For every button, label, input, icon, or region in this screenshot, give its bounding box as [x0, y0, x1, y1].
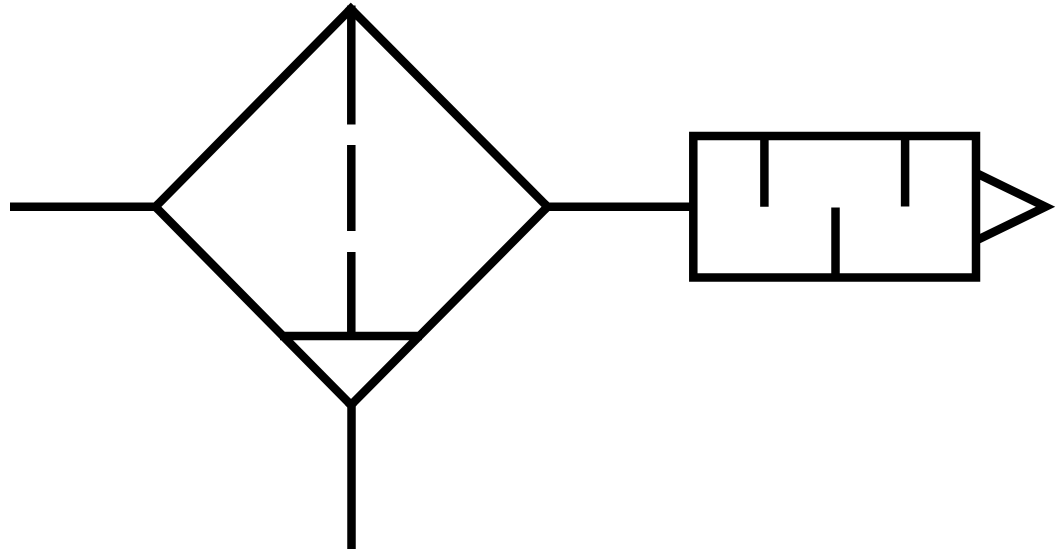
filter element: dashed center line segment 1: [347, 6, 356, 125]
water trap baffle line: [280, 332, 422, 341]
filter element: dashed center line segment 3: [347, 252, 356, 336]
wire: left inlet lead: [10, 203, 157, 212]
muffler/dryer U1: rectangle body: [693, 136, 976, 278]
filter/water-separator F1: diamond body: [156, 9, 548, 405]
wire: diamond lower-right edge: [351, 207, 548, 405]
wire: condensate drain line: [347, 402, 356, 549]
filter element: dashed center line segment 2: [347, 145, 356, 231]
wire: diamond upper-right edge: [351, 9, 548, 207]
exhaust triangle (outlet): [976, 173, 1046, 241]
baffle finger 3 (from top): [901, 136, 910, 207]
wire: connector to muffler: [548, 203, 694, 212]
baffle finger 1 (from top): [760, 136, 769, 207]
baffle finger 2 (from bottom): [831, 208, 840, 278]
wire: diamond lower-left edge: [156, 207, 352, 405]
wire: diamond upper-left edge: [156, 9, 351, 207]
